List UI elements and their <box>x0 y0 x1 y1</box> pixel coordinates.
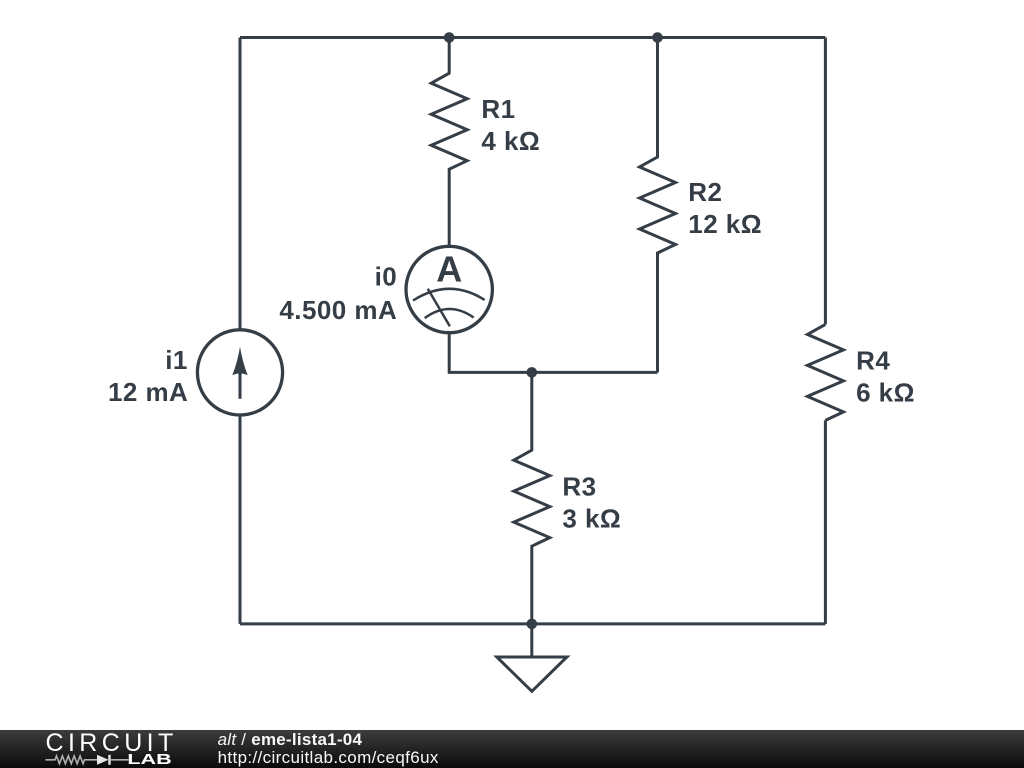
svg-text:R4: R4 <box>856 346 890 376</box>
svg-text:A: A <box>436 249 462 290</box>
svg-text:12 mA: 12 mA <box>108 377 188 407</box>
svg-text:4.500 mA: 4.500 mA <box>279 295 397 325</box>
svg-text:R2: R2 <box>688 177 722 207</box>
svg-text:LAB: LAB <box>127 752 171 768</box>
svg-text:i1: i1 <box>165 345 188 375</box>
svg-text:R3: R3 <box>562 472 596 502</box>
svg-text:i0: i0 <box>375 261 398 291</box>
svg-text:R1: R1 <box>481 94 515 124</box>
svg-text:3 kΩ: 3 kΩ <box>562 504 621 534</box>
svg-text:6 kΩ: 6 kΩ <box>856 378 915 408</box>
svg-text:4 kΩ: 4 kΩ <box>481 126 540 156</box>
svg-text:12 kΩ: 12 kΩ <box>688 209 762 239</box>
